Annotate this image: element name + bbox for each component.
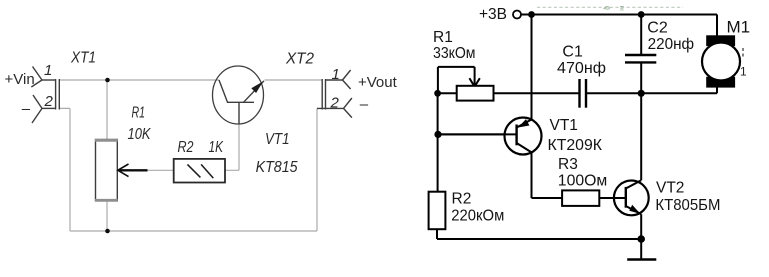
svg-text:220кОм: 220кОм <box>451 208 504 225</box>
svg-text:1: 1 <box>44 62 52 79</box>
svg-text:C1: C1 <box>562 43 583 60</box>
svg-text:1K: 1K <box>209 139 224 156</box>
svg-text:+3В: +3В <box>479 6 507 23</box>
svg-text:R3: R3 <box>558 156 578 173</box>
svg-text:1: 1 <box>740 65 747 79</box>
svg-text:220нф: 220нф <box>648 36 695 53</box>
svg-text:R2: R2 <box>178 139 194 156</box>
svg-text:M1: M1 <box>727 17 751 36</box>
svg-text:XT2: XT2 <box>285 51 314 68</box>
svg-text:C2: C2 <box>647 19 668 36</box>
svg-text:10K: 10K <box>128 126 152 143</box>
svg-text:2: 2 <box>330 95 340 112</box>
svg-text:+Vin: +Vin <box>5 71 35 88</box>
svg-text:R1: R1 <box>433 29 453 46</box>
svg-text:R2: R2 <box>452 191 472 208</box>
svg-text:KT815: KT815 <box>256 159 298 176</box>
svg-text:33кОм: 33кОм <box>433 45 476 62</box>
svg-text:–: – <box>360 96 369 113</box>
svg-text:100Ом: 100Ом <box>558 173 608 190</box>
svg-text:VT1: VT1 <box>550 117 578 134</box>
svg-text:R1: R1 <box>132 104 146 121</box>
svg-text:КТ805БМ: КТ805БМ <box>655 197 720 214</box>
svg-text:VT1: VT1 <box>265 131 290 148</box>
svg-text:XT1: XT1 <box>70 50 96 67</box>
svg-text:VT2: VT2 <box>656 180 684 197</box>
svg-text:470нф: 470нф <box>557 60 606 77</box>
svg-text:–: – <box>22 100 31 117</box>
svg-text:КТ209К: КТ209К <box>548 137 603 154</box>
svg-text:1: 1 <box>332 66 340 83</box>
svg-text:+Vout: +Vout <box>358 74 398 91</box>
svg-text:2: 2 <box>44 93 54 110</box>
